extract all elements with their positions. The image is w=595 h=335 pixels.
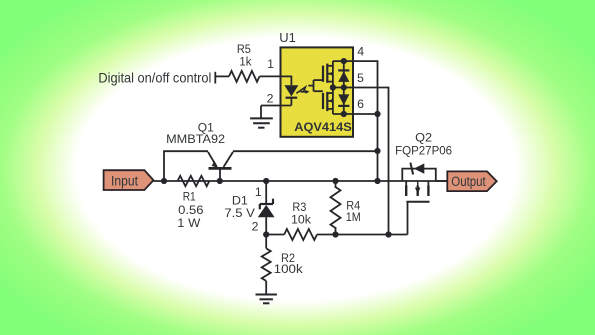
- ground at U1 pin 2: [250, 118, 273, 127]
- svg-text:U1: U1: [279, 30, 296, 45]
- resistor R4: [331, 181, 341, 235]
- junction relay-main line: [374, 178, 380, 184]
- transistor Q2 channel: [406, 181, 429, 202]
- junction input node: [161, 178, 167, 184]
- LED U1 anode lead: [290, 76, 292, 86]
- label AQV414S: [294, 120, 352, 134]
- wire relay output down: [377, 114, 379, 181]
- diode D1 (zener): [258, 181, 275, 235]
- svg-text:MMBTA92: MMBTA92: [166, 132, 225, 146]
- transistor Q1: [208, 152, 233, 181]
- svg-text:Q2: Q2: [415, 131, 432, 145]
- label D1: [224, 194, 255, 221]
- wire control to R5: [215, 75, 229, 77]
- LED U1 triangle: [284, 85, 298, 96]
- svg-text:1M: 1M: [346, 210, 361, 224]
- junction pins 4-6: [374, 111, 380, 117]
- pin 4 label: [357, 45, 364, 59]
- svg-text:1: 1: [267, 57, 274, 71]
- junction Q1 base node: [217, 178, 223, 184]
- wire Q2 gate lead: [407, 202, 409, 235]
- junction pin5-gate net: [385, 231, 391, 237]
- junction diode mid: [341, 84, 347, 90]
- LED U1 cathode lead: [290, 98, 292, 106]
- label D1 pin2: [252, 220, 259, 234]
- svg-text:R1: R1: [183, 190, 196, 204]
- svg-text:1: 1: [255, 185, 262, 199]
- svg-text:4: 4: [357, 45, 364, 59]
- wire U1 pin2 out: [261, 105, 291, 107]
- LED U1 cathode bar: [286, 97, 298, 99]
- svg-text:1k: 1k: [239, 54, 252, 68]
- svg-text:2: 2: [252, 220, 259, 234]
- svg-text:0.56: 0.56: [178, 203, 204, 217]
- label Q1: [166, 121, 225, 147]
- label R2 value: [274, 251, 304, 276]
- resistor R5: [229, 71, 260, 82]
- wire pin2 down to ground: [260, 106, 262, 119]
- wire Q2 drain to output: [436, 180, 448, 182]
- diode DA (top body diode U1): [338, 61, 349, 87]
- IC U1 AQV414S PhotoMOS relay body: [281, 47, 354, 136]
- svg-text:10k: 10k: [291, 213, 312, 227]
- wire gate net U1: [308, 80, 323, 91]
- wire Q1 collector: [233, 150, 378, 152]
- svg-text:7.5 V: 7.5 V: [224, 206, 255, 220]
- junction R4 top node: [332, 178, 338, 184]
- svg-text:Input: Input: [111, 173, 138, 188]
- LED light arrow: [296, 87, 309, 94]
- svg-text:AQV414S: AQV414S: [294, 120, 352, 134]
- node Input tag: [104, 170, 154, 190]
- transistor M2 (bottom MOSFET in U1): [323, 92, 333, 111]
- wire pin 6 rail: [333, 113, 378, 115]
- node Output tag: [447, 171, 496, 191]
- pin 6 label: [357, 97, 364, 111]
- resistor R3: [284, 229, 317, 240]
- svg-text:FQP27P06: FQP27P06: [395, 144, 452, 158]
- svg-text:Output: Output: [451, 174, 486, 189]
- svg-text:6: 6: [357, 97, 364, 111]
- svg-text:100k: 100k: [274, 262, 304, 276]
- svg-text:5: 5: [357, 71, 364, 85]
- label U1: [279, 30, 296, 45]
- pin 2 label U1: [267, 92, 274, 106]
- wire D1 to R2: [265, 235, 267, 249]
- wire main line: [154, 180, 448, 182]
- transistor Q2 body diode bridge: [402, 163, 436, 181]
- junction R4 bottom node: [332, 231, 338, 237]
- label R3 value: [291, 200, 312, 227]
- transistor M1 (top MOSFET in U1): [323, 64, 333, 83]
- label R5 value: [237, 42, 252, 68]
- diode DB (bottom body diode U1): [338, 88, 349, 115]
- resistor R1: [178, 176, 210, 186]
- ground at R2: [256, 295, 277, 304]
- wire R2 to ground: [265, 281, 267, 295]
- label R1 value: [177, 190, 203, 230]
- wire pin 5 rail: [333, 88, 389, 235]
- pin 5 label: [357, 71, 364, 85]
- wire emitter riser: [164, 151, 208, 181]
- label Q2: [395, 131, 452, 158]
- wire R5 to U1 pin 1: [260, 75, 282, 77]
- wire pin1 into box: [282, 75, 292, 77]
- wire bottom net mid: [317, 234, 408, 236]
- resistor R2: [262, 248, 271, 281]
- junction diode bottom: [341, 111, 347, 117]
- node: digital control input label: [98, 69, 211, 85]
- label R4 value: [346, 198, 361, 224]
- junction D1 bottom node: [263, 231, 269, 237]
- node: control input terminal tick: [214, 72, 216, 84]
- junction D1 top node: [263, 178, 269, 184]
- junction diode top: [341, 58, 347, 64]
- wire pin 4 rail: [333, 61, 378, 114]
- junction MOSFET sources: [330, 84, 336, 90]
- label D1 pin1: [255, 185, 262, 199]
- junction collector node: [374, 148, 380, 154]
- wire bottom net left: [266, 234, 284, 236]
- svg-text:Digital on/off control: Digital on/off control: [98, 69, 211, 85]
- wire MOSFET common vertical: [332, 61, 334, 114]
- svg-text:2: 2: [267, 92, 274, 106]
- svg-text:1 W: 1 W: [177, 216, 200, 230]
- pin 1 label U1: [267, 57, 274, 71]
